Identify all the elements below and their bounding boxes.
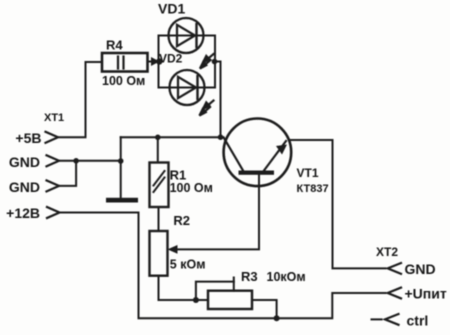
svg-text:5 кОм: 5 кОм [170,258,206,272]
svg-text:10кОм: 10кОм [267,270,306,284]
svg-text:R3: R3 [241,269,258,284]
svg-text:+12В: +12В [6,205,40,221]
svg-text:100 Ом: 100 Ом [102,74,145,88]
svg-text:КТ837: КТ837 [297,183,329,195]
svg-text:VT1: VT1 [297,166,319,180]
svg-text:+Uпит: +Uпит [405,286,447,302]
svg-text:ctrl: ctrl [407,313,429,329]
svg-text:XT1: XT1 [44,112,64,124]
svg-text:100 Ом: 100 Ом [170,181,213,195]
svg-text:XT2: XT2 [376,245,398,259]
svg-text:GND: GND [9,179,40,195]
svg-text:VD2: VD2 [159,52,183,66]
svg-text:GND: GND [9,154,40,170]
svg-text:GND: GND [405,261,436,277]
svg-text:+5В: +5В [15,130,41,146]
svg-text:VD1: VD1 [158,1,185,17]
svg-text:R4: R4 [106,38,123,53]
svg-text:R2: R2 [173,213,190,228]
